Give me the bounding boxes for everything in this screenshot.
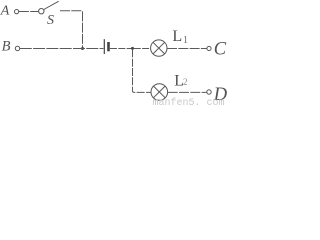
switch S pivot	[39, 9, 44, 14]
svg-text:C: C	[214, 40, 227, 60]
junction dot 1	[81, 47, 84, 50]
svg-text:manfen5. com: manfen5. com	[153, 97, 225, 106]
junction dot 2	[131, 47, 134, 50]
lamp L2	[151, 84, 168, 101]
wire B to battery	[20, 47, 104, 49]
battery long plate	[103, 39, 105, 54]
wire lamp L2 to terminal D	[168, 91, 207, 93]
lamp L1	[151, 40, 167, 56]
wire A to switch	[19, 11, 39, 13]
terminal A	[15, 10, 19, 14]
wire switch to corner	[60, 11, 83, 48]
wire battery to junction 2	[110, 47, 131, 49]
svg-text:1: 1	[183, 35, 188, 46]
terminal B	[15, 46, 19, 50]
svg-text:B: B	[2, 39, 11, 55]
switch S lever	[44, 1, 59, 9]
wire junction 2 to lamp L1	[134, 47, 151, 49]
svg-text:S: S	[47, 13, 54, 28]
battery short thick plate	[107, 42, 110, 51]
wire lamp L1 to terminal C	[167, 47, 207, 49]
svg-text:L: L	[172, 28, 182, 45]
terminal D	[207, 90, 211, 94]
wire junction 2 down to lamp L2 branch	[133, 49, 151, 92]
terminal C	[207, 46, 211, 50]
svg-text:2: 2	[183, 77, 188, 87]
svg-text:A: A	[0, 4, 10, 19]
